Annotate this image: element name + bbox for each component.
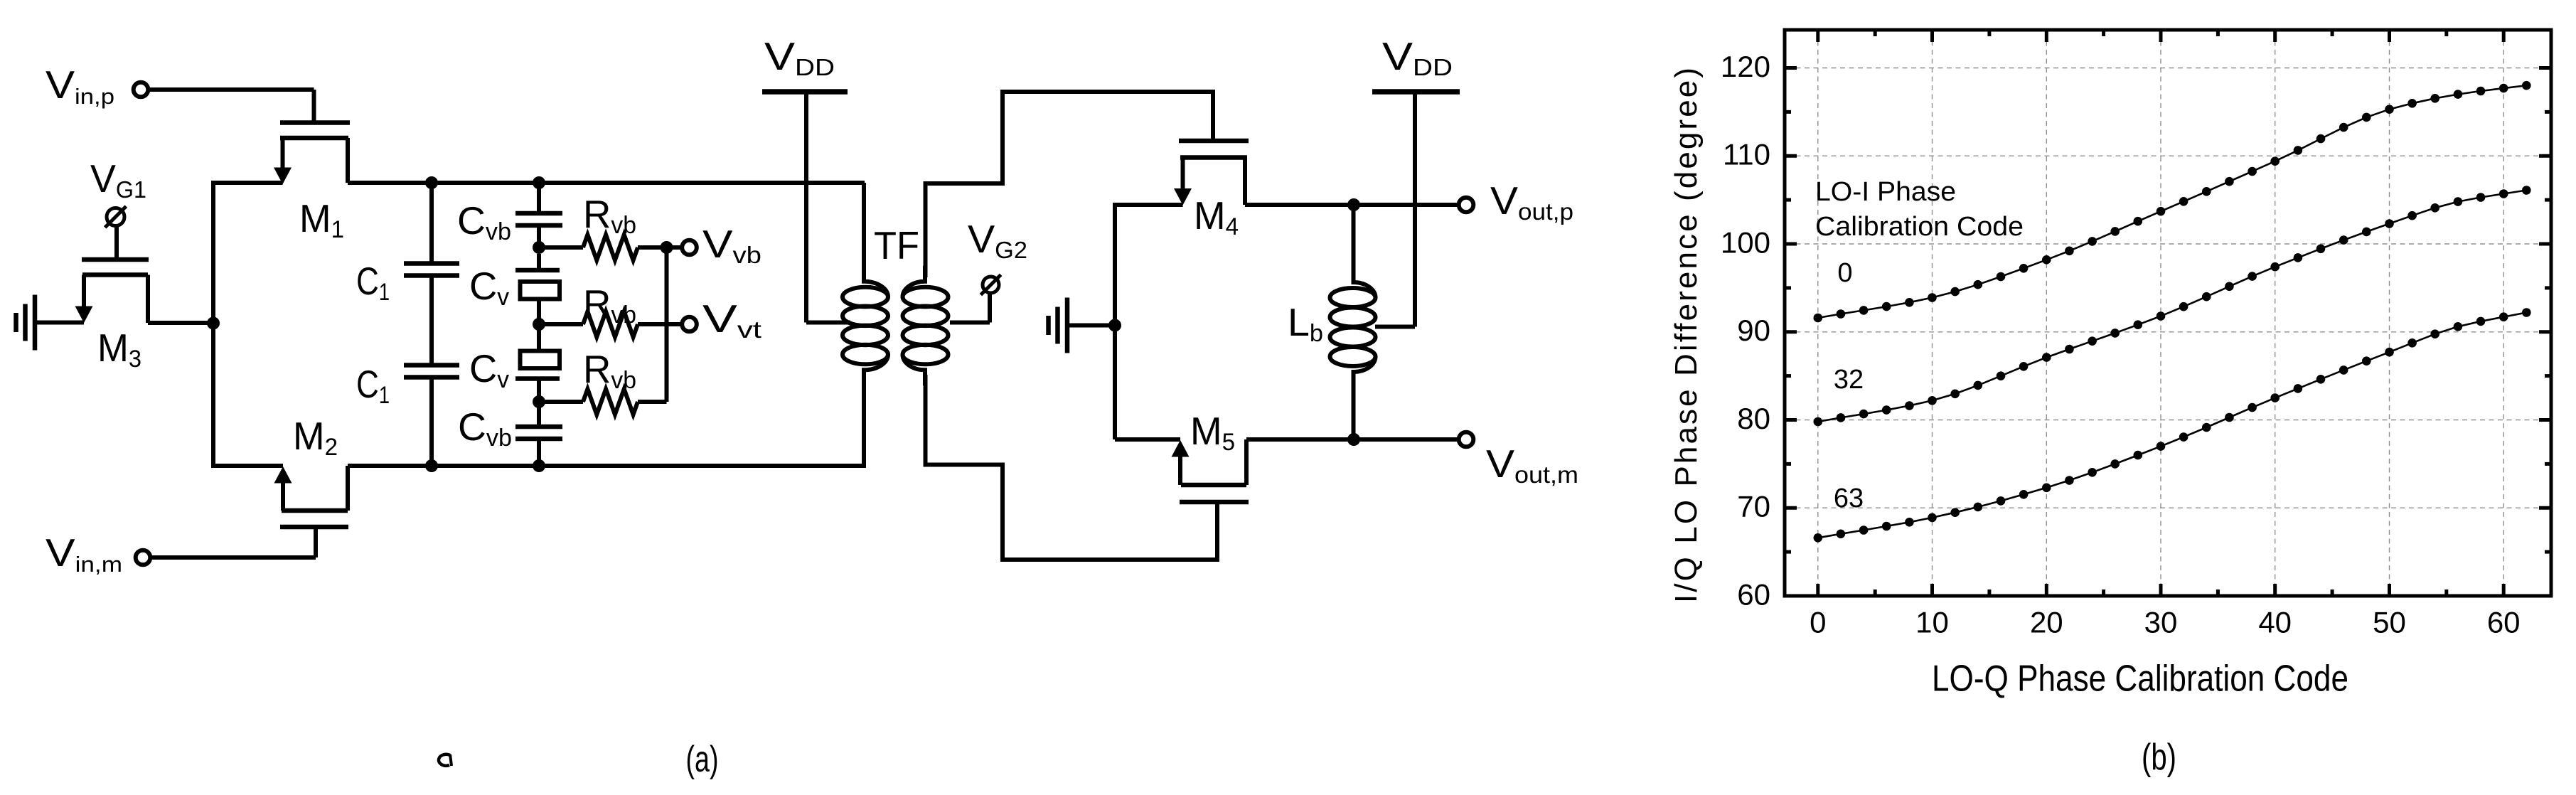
transformer TF secondary xyxy=(903,266,948,386)
resistor Rvb1 xyxy=(539,235,667,260)
caption (a) xyxy=(686,739,719,780)
caption (b) xyxy=(2142,737,2176,778)
svg-text:(a): (a) xyxy=(686,739,719,780)
terminal Vvt xyxy=(682,297,761,343)
svg-text:80: 80 xyxy=(1737,402,1770,435)
terminal Voutm xyxy=(1459,432,1578,488)
svg-text:LO-Q Phase Calibration Code: LO-Q Phase Calibration Code xyxy=(1932,658,2348,700)
terminal Voutp xyxy=(1459,178,1573,225)
label VDD right xyxy=(1382,34,1453,80)
chart legend 32 xyxy=(1834,365,1864,395)
varactor Cv1 xyxy=(515,254,560,324)
wire mid vertical xyxy=(1113,203,1117,439)
svg-text:100: 100 xyxy=(1721,225,1770,259)
svg-text:50: 50 xyxy=(2373,606,2406,639)
svg-text:0: 0 xyxy=(1810,606,1826,639)
supply VDD right xyxy=(1372,92,1460,327)
junction dot bus top xyxy=(661,241,673,254)
stray mark xyxy=(439,754,451,766)
terminal Vvb xyxy=(682,222,761,268)
label VDD left xyxy=(764,34,835,80)
junction dot node vb2 xyxy=(533,395,545,408)
chart gridlines xyxy=(1787,32,2549,594)
wire bus to Vvb xyxy=(667,245,683,250)
wire secondary bottom to M5 gate xyxy=(926,375,1218,560)
ground GND2 xyxy=(1049,298,1116,353)
capacitor C1 upper xyxy=(404,183,459,365)
label Cvb lower xyxy=(458,405,512,452)
svg-text:120: 120 xyxy=(1721,50,1770,83)
label TF xyxy=(874,223,919,267)
wire M5 drain to Voutm xyxy=(1246,437,1459,442)
label Cv1 xyxy=(469,264,509,311)
wire M4 drain to Voutp xyxy=(1245,203,1459,207)
junction dot node vb1 xyxy=(533,241,545,254)
label Rvb3 xyxy=(583,347,636,394)
junction dot brail-C1 xyxy=(425,459,438,472)
svg-text:32: 32 xyxy=(1834,365,1864,395)
chart legend 0 xyxy=(1837,258,1852,288)
label Lb xyxy=(1288,300,1323,347)
capacitor C1 lower xyxy=(404,366,459,466)
wire secondary top to M4 gate xyxy=(926,92,1214,277)
chart x axis title xyxy=(1932,658,2348,700)
label Rvb1 xyxy=(583,192,636,239)
svg-text:TF: TF xyxy=(874,223,919,267)
capacitor Cvb lower xyxy=(515,402,562,466)
svg-text:110: 110 xyxy=(1723,138,1770,171)
svg-text:(b): (b) xyxy=(2142,737,2176,778)
variable source VG1 xyxy=(105,206,127,260)
label C1 upper xyxy=(356,259,390,306)
resistor Rvb3 xyxy=(539,389,667,415)
junction dot rail-Cvb xyxy=(533,176,545,189)
variable source VG2 xyxy=(950,274,1001,322)
label C1 lower xyxy=(356,362,390,409)
transistor M3 xyxy=(75,260,149,323)
wire bottom rail xyxy=(348,464,865,468)
label M1 xyxy=(299,196,344,243)
chart axes frame xyxy=(1785,30,2551,596)
transistor M4 xyxy=(1174,141,1249,206)
chart tick marks xyxy=(1785,30,2551,596)
wire top rail xyxy=(348,181,865,185)
ground GND1 xyxy=(16,295,85,351)
node wire M3 drain xyxy=(148,321,213,325)
junction dot brail-Cvb xyxy=(533,459,545,472)
label Cv2 xyxy=(469,346,509,393)
junction dot Lb bottom xyxy=(1347,433,1360,446)
chart y tick labels xyxy=(1721,50,1770,612)
junction dot GND2 xyxy=(1108,319,1121,332)
label VG1 xyxy=(90,156,146,203)
svg-text:20: 20 xyxy=(2030,606,2063,639)
svg-text:Calibration Code: Calibration Code xyxy=(1815,212,2024,242)
svg-text:60: 60 xyxy=(2487,606,2521,639)
label M2 xyxy=(293,414,338,461)
wire M2 source jog xyxy=(211,464,283,468)
transistor M2 xyxy=(274,466,349,527)
wire M5 source xyxy=(1115,437,1180,442)
svg-text:I/Q LO Phase Difference (degre: I/Q LO Phase Difference (degree) xyxy=(1669,68,1704,603)
label M5 xyxy=(1190,409,1235,456)
label M3 xyxy=(97,326,141,373)
svg-text:30: 30 xyxy=(2144,606,2178,639)
svg-text:LO-I Phase: LO-I Phase xyxy=(1815,177,1956,207)
junction dot M3 drain xyxy=(207,317,220,330)
transistor M1 xyxy=(274,123,350,185)
transformer TF primary xyxy=(843,183,888,468)
chart y axis title xyxy=(1669,68,1704,603)
label VG2 xyxy=(968,217,1027,263)
label Cvb upper xyxy=(457,198,511,245)
wire M2 gate xyxy=(149,527,316,557)
chart legend 63 xyxy=(1834,484,1864,513)
terminal Vin,m xyxy=(46,530,150,577)
junction dot rail-C1 xyxy=(425,176,438,189)
label Rvb2 xyxy=(583,282,636,329)
data series LO-I code 0 xyxy=(1814,81,2531,322)
chart legend title xyxy=(1815,177,2024,242)
svg-text:63: 63 xyxy=(1834,484,1864,513)
chart x tick labels xyxy=(1810,606,2520,639)
wire Vin,p to M1 gate xyxy=(148,90,314,121)
transistor M5 xyxy=(1172,439,1249,502)
terminal Vin,p xyxy=(46,63,148,109)
wire left node vertical xyxy=(211,181,215,468)
data series LO-I code 63 xyxy=(1814,308,2531,542)
svg-text:70: 70 xyxy=(1737,490,1770,523)
data series LO-I code 32 xyxy=(1814,186,2531,426)
junction dot Lb top xyxy=(1347,198,1360,211)
wire bias bus xyxy=(665,245,669,402)
svg-text:60: 60 xyxy=(1737,577,1770,611)
svg-text:10: 10 xyxy=(1915,606,1949,639)
svg-text:40: 40 xyxy=(2258,606,2292,639)
capacitor Cvb upper xyxy=(515,183,562,247)
junction dot node vt xyxy=(533,318,545,331)
varactor Cv2 xyxy=(515,324,560,402)
wire M1 source jog xyxy=(211,181,283,185)
label M4 xyxy=(1194,193,1239,240)
svg-text:0: 0 xyxy=(1837,258,1852,288)
wire M4 source xyxy=(1115,203,1183,207)
inductor Lb xyxy=(1330,205,1376,439)
resistor Rvb2 xyxy=(539,311,682,337)
supply VDD left xyxy=(762,92,850,323)
svg-text:90: 90 xyxy=(1737,314,1770,347)
